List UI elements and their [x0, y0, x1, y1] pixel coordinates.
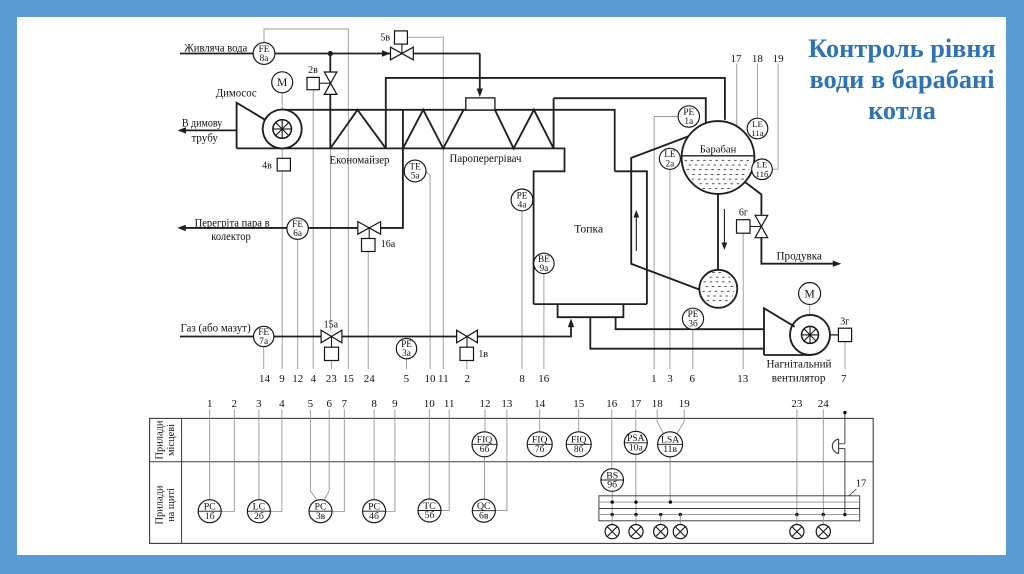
wire PSA10а to bus [635, 454, 637, 502]
signal 14 from FE7a [263, 347, 265, 369]
connector socket symbol [832, 439, 838, 453]
connector pins [839, 444, 845, 449]
riser channel (left) [631, 136, 699, 289]
col 15 to FIQ8б [578, 410, 580, 433]
wire: downcomer drum to lower drum [717, 194, 719, 270]
svg-text:Економайзер: Економайзер [330, 154, 390, 166]
col 16 to BS9б [611, 410, 613, 470]
svg-text:6б: 6б [480, 444, 490, 455]
svg-text:4: 4 [279, 398, 285, 410]
svg-text:11б: 11б [756, 169, 769, 179]
riser flow arrowhead [633, 210, 639, 218]
svg-text:М: М [277, 77, 287, 89]
svg-text:3а: 3а [402, 349, 411, 359]
flue gas duct top / drop to furnace [282, 110, 615, 172]
wire: superheated steam to collector [180, 148, 403, 228]
signal lamp at 823.3 [816, 525, 830, 539]
leader line 17 [849, 489, 857, 496]
col 2 to PC1б side [221, 410, 234, 512]
svg-text:2б: 2б [254, 511, 264, 522]
table frame [150, 418, 874, 543]
svg-text:8: 8 [371, 398, 377, 410]
riser flow arrow shaft [635, 214, 637, 251]
control valve 5в [391, 47, 414, 60]
col 5 to PC3в [310, 410, 317, 502]
signal 13 from box 6г [742, 233, 744, 369]
svg-text:на щиті: на щиті [166, 488, 177, 522]
totalizer FIQ 8б [566, 432, 591, 457]
level element LE 2а [659, 148, 680, 169]
svg-text:8б: 8б [574, 444, 584, 455]
svg-text:5в: 5в [380, 32, 390, 43]
svg-text:4а: 4а [518, 201, 527, 211]
superheater coil right part [495, 98, 554, 148]
bus junction (844.9,514.6) [843, 513, 846, 516]
bus verticals [612, 502, 636, 514]
svg-text:місцеві: місцеві [166, 424, 177, 456]
svg-text:3б: 3б [688, 318, 698, 329]
svg-text:2: 2 [464, 373, 470, 385]
svg-text:Барабан: Барабан [700, 145, 737, 156]
lamp stem 612.2 [611, 515, 613, 525]
svg-text:6в: 6в [479, 510, 489, 521]
title [802, 33, 1002, 126]
signal 16 from BE9a [543, 274, 545, 370]
wire: blowdown line (Продувка) [744, 182, 838, 264]
bus wire row 4 [599, 514, 860, 516]
totalizer FIQ 7б [527, 432, 552, 457]
bus junction (796.9,514.6) [795, 513, 798, 516]
slide frame [0, 0, 17, 574]
signal lamp at 612.2 [605, 525, 619, 539]
col 4 to LC2б side [271, 410, 282, 512]
stem valve 1в [466, 337, 468, 348]
flow element FE 7а [254, 326, 274, 347]
svg-text:10: 10 [424, 398, 436, 410]
temperature element TE 5а [404, 160, 426, 182]
motor M димосос [272, 72, 293, 93]
lower drum [699, 270, 737, 308]
actuator box 3г [838, 328, 851, 341]
control valve 15а [321, 330, 342, 343]
svg-text:16а: 16а [381, 239, 396, 250]
signal 17 to drum [736, 64, 738, 127]
superheater coil left part (Пароперегрівач) [403, 110, 464, 149]
svg-text:19: 19 [773, 53, 785, 65]
svg-text:Прилади: Прилади [155, 420, 166, 459]
pressure element PE 3а [396, 338, 416, 359]
signal 8 from PE4a [521, 211, 523, 369]
table row divider [150, 461, 874, 463]
lamp stem 796.9 [796, 515, 798, 525]
svg-text:3: 3 [667, 373, 673, 385]
actuator box 1в [460, 347, 474, 360]
svg-text:17: 17 [856, 479, 867, 490]
svg-text:В димову: В димову [182, 118, 223, 130]
actuator box 16а [362, 239, 376, 252]
svg-text:18: 18 [752, 53, 764, 65]
svg-text:Димосос: Димосос [216, 87, 257, 99]
bus junction (660.7,514.6) [659, 513, 662, 516]
col 11 to TC5б side [441, 410, 449, 511]
signal 23 link to valve 15a [330, 149, 333, 369]
svg-text:трубу: трубу [191, 132, 218, 144]
svg-text:14: 14 [259, 373, 271, 385]
flame sensor BE 9а [534, 253, 554, 274]
totalizer FIQ 6б [472, 432, 497, 457]
flue gas duct bottom / furnace left wall [237, 148, 565, 304]
lamp stem 823.3 [822, 515, 824, 525]
furnace top right / right wall [615, 171, 647, 304]
controller PC 1б [198, 500, 221, 523]
svg-text:Газ (або мазут): Газ (або мазут) [180, 322, 250, 334]
svg-text:6а: 6а [293, 229, 302, 239]
bus junction (680.3,514.6) [679, 513, 682, 516]
wire: gas line (Газ або мазут) [180, 322, 571, 337]
svg-text:23: 23 [326, 373, 338, 385]
col 23 to lamp bus [796, 410, 798, 515]
control valve 1в [457, 330, 478, 343]
bus wire row 2 [599, 501, 860, 503]
wire FIQ6б to QC6в [484, 457, 486, 500]
svg-text:Топка: Топка [574, 223, 603, 235]
actuator box 4в [277, 158, 290, 171]
lower drum water hatching [702, 273, 734, 301]
svg-text:5а: 5а [411, 172, 420, 182]
table row label: Прилади місцеві [155, 420, 178, 459]
svg-text:10: 10 [425, 373, 437, 385]
control valve 16а [358, 222, 381, 235]
svg-text:13: 13 [737, 373, 749, 385]
actuator box 2в [307, 77, 319, 89]
signal 2 from valve 1в [466, 361, 468, 370]
signal 7 from box 3г [844, 342, 846, 369]
svg-text:4в: 4в [262, 161, 272, 172]
blower impeller [802, 326, 819, 343]
wire: feed branch through valve 2в / economizer inlet [329, 54, 331, 149]
bus junction (636,502) [634, 500, 637, 503]
svg-text:4б: 4б [369, 511, 379, 522]
wire: saturated steam drum to superheater [554, 98, 706, 123]
drum water level line [682, 155, 755, 157]
junction: feed branch [328, 51, 333, 56]
pressure element PE 3б [682, 308, 703, 329]
bus wire row 3 [599, 508, 860, 510]
svg-text:6г: 6г [739, 207, 748, 218]
svg-text:11а: 11а [751, 128, 763, 138]
svg-text:23: 23 [791, 398, 803, 410]
wire BS9б to bus [611, 491, 613, 502]
col 7 to PC3в side [332, 410, 344, 512]
flame relay BS 9б [601, 469, 624, 492]
control valve 2в [324, 72, 337, 94]
arrow: blowdown [833, 261, 842, 267]
svg-text:3: 3 [256, 398, 262, 410]
bus junction (636,514.6) [634, 513, 637, 516]
air duct lower line [590, 318, 764, 349]
signal 10 from TE5a [426, 171, 430, 369]
svg-text:колектор: колектор [211, 231, 251, 243]
svg-text:18: 18 [652, 398, 664, 410]
svg-text:15а: 15а [324, 319, 339, 330]
downcomer flow arrow shaft [723, 209, 725, 246]
svg-text:2в: 2в [308, 65, 318, 76]
arrow into economizer header [477, 89, 483, 98]
blowdown valve 6г [755, 215, 768, 237]
table row label: Прилади на щиті [155, 485, 178, 524]
pressure element PE 1а [678, 106, 699, 127]
col 6 to PC3в [324, 410, 329, 502]
signal M to blower hub [809, 305, 811, 327]
wire LSA11в to bus [669, 457, 671, 503]
svg-text:11: 11 [444, 398, 455, 410]
controller QC 6в [472, 499, 495, 522]
signal lamp at 636 [629, 525, 643, 539]
svg-text:12: 12 [292, 373, 303, 385]
svg-text:Прилади: Прилади [155, 485, 166, 524]
wire: feed water line (Живляча вода) [180, 53, 480, 55]
svg-text:3г: 3г [840, 317, 849, 328]
svg-text:4: 4 [311, 373, 317, 385]
lamp stem 680.3 [679, 515, 681, 525]
wire: economizer outlet to drum [386, 78, 725, 148]
svg-text:15: 15 [343, 373, 355, 385]
arrow: gas into burner [568, 319, 574, 328]
svg-text:М: М [804, 288, 814, 300]
svg-text:24: 24 [818, 398, 830, 410]
svg-text:Живляча вода: Живляча вода [184, 42, 247, 54]
economizer inlet header [466, 98, 495, 110]
svg-text:1а: 1а [684, 117, 693, 127]
flow element FE 8а [253, 43, 275, 65]
svg-text:3в: 3в [316, 511, 326, 522]
actuator box 5в [395, 31, 408, 44]
svg-text:7: 7 [342, 398, 348, 410]
fan Нагнітальний вентилятор casing [764, 308, 830, 355]
svg-text:1б: 1б [205, 511, 215, 522]
svg-text:17: 17 [731, 53, 743, 65]
fan Димосос casing [237, 103, 302, 149]
col 8 to PC4б [373, 410, 375, 500]
stem valve 16а [368, 228, 370, 239]
signal 18 to LE11a [756, 64, 758, 119]
svg-text:5: 5 [308, 398, 314, 410]
drum (Барабан) [682, 121, 755, 194]
svg-text:24: 24 [364, 373, 376, 385]
controller PC 3в [309, 500, 332, 523]
flow arrow before valve 5в [382, 50, 391, 56]
wire: feed drop to header [479, 54, 481, 91]
pressure element PE 4а [511, 189, 533, 211]
svg-text:Нагнітальний: Нагнітальний [767, 358, 832, 370]
controller PC 4б [363, 500, 386, 523]
svg-text:5: 5 [404, 373, 410, 385]
svg-text:13: 13 [501, 398, 513, 410]
svg-text:16: 16 [538, 373, 550, 385]
air duct upper line [616, 318, 764, 329]
signal lamp at 796.9 [790, 525, 804, 539]
svg-text:1: 1 [207, 398, 213, 410]
signal 11 from box 5в [408, 37, 444, 369]
motor M вентилятор [799, 283, 821, 305]
svg-text:1в: 1в [478, 349, 488, 360]
svg-text:6: 6 [326, 398, 332, 410]
signal 24 from box 16а [367, 252, 369, 369]
bus junction (670.4,502) [669, 500, 672, 503]
connector terminal dot [843, 411, 846, 414]
pressure alarm PSA 10а [624, 431, 647, 454]
signal lamp at 660.7 [654, 525, 668, 539]
level alarm LSA 11в [658, 432, 683, 457]
col 19 to LSA11в [677, 410, 685, 434]
level element LE 11а [747, 118, 768, 139]
svg-text:8а: 8а [260, 54, 269, 64]
svg-text:14: 14 [534, 398, 546, 410]
burner box [558, 304, 624, 317]
col 18 to LSA11в [657, 410, 663, 434]
svg-text:5б: 5б [425, 510, 435, 521]
col 24 to lamp bus [822, 410, 824, 515]
signal 6 from PE3б [692, 329, 694, 369]
actuator box 6г [737, 220, 751, 234]
bus junction (612.2,514.6) [611, 513, 614, 516]
signal 15 from FE8a [264, 29, 348, 369]
wire: connector drop [844, 414, 846, 515]
svg-text:11в: 11в [663, 444, 677, 455]
svg-text:9: 9 [279, 373, 285, 385]
svg-text:8: 8 [519, 373, 525, 385]
arrow: to chimney [178, 127, 187, 133]
svg-text:Продувка: Продувка [777, 250, 822, 262]
controller TC 5б [418, 499, 441, 522]
arrow: to collector [177, 225, 186, 231]
svg-text:9а: 9а [540, 264, 549, 274]
signal 3 from LE2a [669, 169, 671, 369]
signal 19 to LE11б [772, 64, 778, 170]
svg-text:9б: 9б [607, 480, 617, 491]
svg-text:2: 2 [232, 398, 238, 410]
signal 1 from PE1a [654, 117, 678, 370]
stem valve 5в [401, 44, 403, 53]
lamp stem 636 [635, 515, 637, 525]
col 3 to LC2б [258, 410, 260, 500]
col 9 to PC4б side [386, 410, 395, 512]
svg-text:6: 6 [690, 373, 696, 385]
wire: blower outlet to 3г [830, 334, 838, 336]
col 10 to TC5б [428, 410, 430, 500]
signal lamp at 680.3 [673, 525, 687, 539]
col 12 to FIQ6б [484, 410, 486, 433]
wire: exhaust to chimney [180, 129, 237, 131]
drum water hatching [685, 160, 751, 188]
flow element FE 6а [287, 218, 308, 239]
svg-text:11: 11 [438, 373, 449, 385]
svg-text:7б: 7б [535, 444, 545, 455]
stem valve 2в [319, 82, 331, 84]
bus junction (612.2,502) [611, 500, 614, 503]
signal 9 from M/4в [281, 93, 283, 369]
svg-text:2а: 2а [666, 159, 675, 169]
svg-text:17: 17 [630, 398, 642, 410]
table header divider [181, 418, 183, 543]
svg-text:7: 7 [841, 373, 847, 385]
downcomer flow arrowhead [722, 243, 728, 251]
fan Димосос impeller [273, 120, 292, 139]
svg-text:16: 16 [606, 398, 618, 410]
economizer coil (Економайзер) [330, 110, 386, 149]
lamp bus strip [599, 496, 860, 521]
svg-text:15: 15 [573, 398, 585, 410]
bus junction (823.3,514.6) [822, 513, 825, 516]
actuator box 15а [325, 347, 339, 360]
lamp stem 660.7 [660, 515, 662, 525]
stem valve 6г [750, 226, 761, 228]
controller LC 2б [247, 500, 270, 523]
svg-text:19: 19 [679, 398, 691, 410]
svg-text:вентилятор: вентилятор [772, 372, 826, 384]
svg-text:7а: 7а [259, 337, 268, 347]
col 17 to PSA10а [635, 410, 637, 432]
signal 4 from valve 2в [312, 90, 314, 369]
furnace bottom [534, 303, 647, 305]
svg-text:12: 12 [480, 398, 491, 410]
signal 5 from PE3a [406, 359, 408, 369]
col 14 to FIQ7б [539, 410, 541, 433]
col 13 to QC6в side [495, 410, 507, 511]
svg-text:1: 1 [651, 373, 657, 385]
svg-text:10а: 10а [629, 442, 644, 453]
svg-text:9: 9 [392, 398, 398, 410]
signal 12 from FE6a [297, 239, 299, 369]
level element LE 11б [752, 159, 773, 180]
svg-text:Перегріта пара в: Перегріта пара в [195, 217, 270, 229]
svg-text:Пароперегрівач: Пароперегрівач [450, 153, 522, 165]
stem valve 15а [331, 337, 333, 348]
col 1 to PC1б [209, 410, 211, 500]
